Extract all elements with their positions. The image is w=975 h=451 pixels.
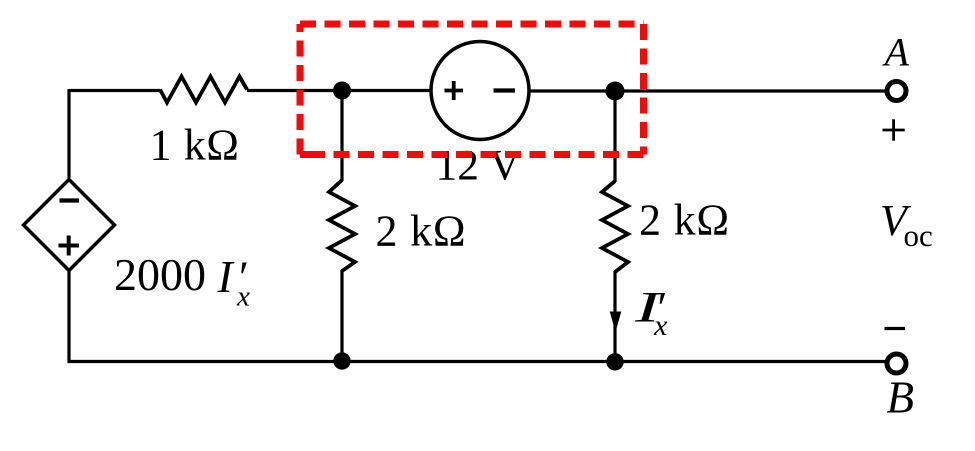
svg-text:x: x: [236, 281, 250, 313]
arrowhead current Ix: [610, 312, 622, 333]
svg-text:A: A: [882, 30, 910, 75]
wire top-left horizontal: [69, 89, 160, 92]
svg-text:12 V: 12 V: [436, 141, 521, 189]
terminal A: [887, 82, 906, 101]
svg-text:oc: oc: [904, 218, 933, 253]
svg-text:B: B: [887, 373, 915, 423]
minus sign at terminal B: [885, 327, 906, 330]
terminal B: [887, 354, 906, 373]
svg-text:1 kΩ: 1 kΩ: [150, 121, 240, 170]
junction dot top left: [333, 82, 351, 100]
minus sign of dependent source: [60, 198, 80, 202]
wire bottom horizontal: [68, 360, 886, 363]
svg-text:2 kΩ: 2 kΩ: [376, 207, 467, 256]
plus sign of 12V source: [445, 81, 464, 100]
svg-text:x: x: [653, 309, 668, 342]
highlight box (red dashed): [300, 24, 644, 155]
minus sign of 12V source: [494, 88, 516, 92]
resistor 2 kOhm middle: [329, 180, 355, 271]
svg-text:2000: 2000: [114, 249, 206, 300]
wire middle branch lower: [340, 270, 343, 362]
wire middle branch upper: [340, 91, 343, 182]
plus sign of dependent source: [59, 236, 80, 256]
resistor 1 kOhm: [160, 77, 247, 103]
wire top middle: [247, 89, 432, 92]
voltage source U1 12V: [431, 42, 529, 140]
wire right branch lower: [613, 271, 616, 362]
wire left vertical upper: [67, 89, 70, 178]
resistor 2 kOhm right: [602, 181, 628, 272]
junction dot top right: [606, 82, 625, 101]
junction dot bottom left: [333, 352, 350, 369]
svg-text:2 kΩ: 2 kΩ: [639, 196, 730, 245]
wire top right: [529, 89, 885, 92]
plus sign at terminal A: [883, 119, 905, 140]
wire left vertical lower: [67, 272, 70, 364]
svg-text:I: I: [217, 251, 235, 302]
dependent source 2000 Ix (diamond): [24, 180, 115, 271]
junction dot bottom right: [606, 353, 623, 370]
wire right branch upper: [613, 91, 616, 182]
